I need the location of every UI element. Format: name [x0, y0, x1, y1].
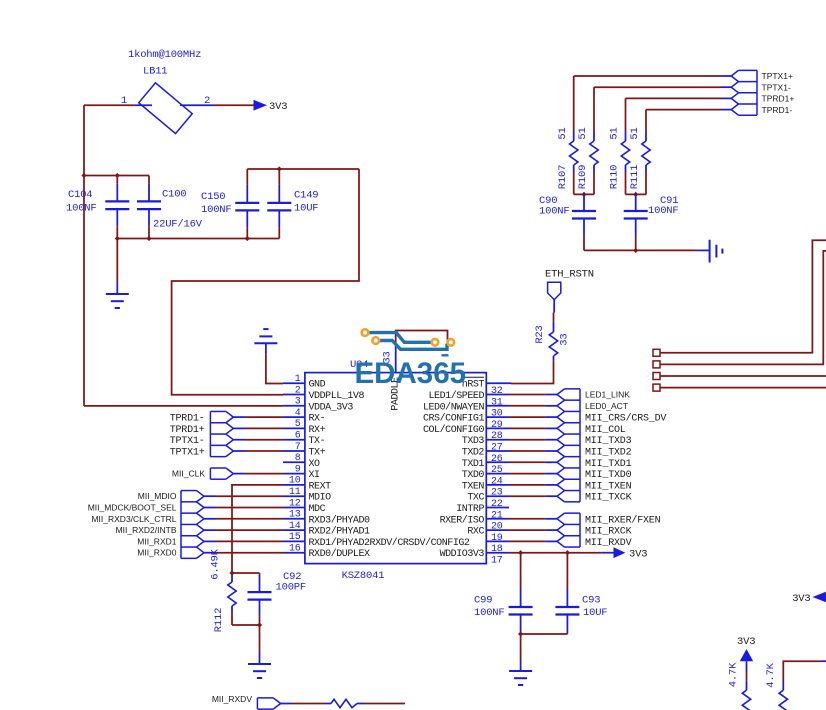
wire MII_MDIO to pin 11 — [204, 495, 283, 497]
pin name GND — [309, 380, 326, 391]
pin number 6 — [295, 431, 301, 442]
wire R107-R109 bottom bar — [574, 193, 594, 195]
logo via C — [432, 339, 439, 346]
label 4.7K (second) — [765, 662, 777, 687]
pin name XO — [309, 459, 321, 470]
pin 7 stub (left) — [283, 450, 305, 452]
label 51 of R109 — [577, 127, 589, 139]
junction C92 bottom — [257, 622, 262, 627]
pin name INTRP — [456, 504, 484, 515]
label R112 — [213, 608, 225, 632]
junction C150 bottom — [245, 236, 250, 241]
capacitor C149 — [267, 169, 291, 239]
svg-text:4.7K: 4.7K — [765, 662, 777, 687]
svg-text:TPRD1+: TPRD1+ — [762, 94, 795, 104]
wire pin row 11 to flag MII_TXCK — [509, 495, 557, 497]
svg-text:C100: C100 — [162, 189, 186, 201]
wire ETH_RSTN to R23 — [553, 313, 555, 320]
ground below C104 — [106, 283, 129, 308]
label C92 — [283, 571, 301, 583]
pin name TX+ — [309, 448, 326, 459]
wire right edge to second resistor — [783, 661, 826, 681]
wire VDDA_3V3 vertical from LB11 node — [83, 105, 85, 406]
wire 3V3 rail to LB11 pin1 — [84, 104, 134, 106]
connector pad square 3 — [653, 373, 660, 380]
label MII_CRS/CRS_DV — [585, 413, 666, 425]
svg-text:23: 23 — [491, 488, 503, 499]
pin name LED1/SPEED — [428, 390, 484, 402]
junction C149 top — [277, 166, 282, 171]
resistor 4.7K (first) — [742, 680, 750, 710]
svg-text:R110: R110 — [609, 165, 621, 189]
logo trace 2 — [380, 341, 448, 350]
wire termination ground rail — [584, 249, 710, 251]
pin stub right row 8 — [486, 461, 509, 463]
pin number 19 — [491, 533, 503, 544]
wire paddle net — [396, 331, 448, 345]
label 22UF/16V of C100 — [153, 219, 203, 231]
wire MII_CLK to pin 9 — [233, 473, 283, 475]
wire MII_RXDV to resistor — [281, 703, 326, 705]
label MII_TXD1 — [585, 459, 632, 470]
svg-text:18: 18 — [491, 544, 503, 555]
wire R112/C92 top bar — [232, 572, 260, 574]
svg-text:MII_RXD3/CLK_CTRL: MII_RXD3/CLK_CTRL — [91, 514, 176, 524]
pin number 1 — [295, 374, 301, 385]
wire pin row 7 to flag MII_TXD2 — [509, 450, 557, 452]
pin 16 stub (left) — [283, 552, 305, 554]
svg-text:LED1_LINK: LED1_LINK — [585, 390, 630, 400]
svg-text:MII_TXD3: MII_TXD3 — [585, 436, 632, 447]
svg-text:21: 21 — [491, 510, 503, 521]
pin number 1 of LB11 — [121, 95, 127, 107]
label R23 — [534, 325, 546, 343]
junction C90 top — [581, 192, 586, 197]
junction C104 top — [115, 173, 120, 178]
pin 4 stub (left) — [283, 416, 305, 418]
junction C104 bottom — [115, 236, 120, 241]
svg-text:51: 51 — [609, 127, 621, 139]
svg-text:R111: R111 — [629, 165, 641, 189]
svg-text:17: 17 — [491, 556, 503, 567]
junction C99 top — [518, 550, 523, 555]
pin 6 stub (left) — [283, 439, 305, 441]
IC U24 KSZ8041 body — [305, 373, 486, 564]
svg-text:19: 19 — [491, 533, 503, 544]
pin name TXD1 — [462, 459, 485, 470]
label 3V3 (right edge) — [792, 593, 810, 605]
wire pin row 15 to flag MII_RXDV — [509, 540, 557, 542]
svg-text:MII_RXER/FXEN: MII_RXER/FXEN — [585, 514, 661, 526]
svg-text:25: 25 — [491, 465, 503, 476]
label 10UF of C149 — [294, 203, 318, 215]
wire R110-R111 bottom bar — [626, 193, 647, 195]
label MII_RXD0 — [137, 548, 176, 558]
wire cap rail top left — [84, 175, 149, 177]
label TPTX1+ — [170, 448, 205, 459]
svg-text:2: 2 — [295, 385, 301, 396]
label MII_TXCK — [585, 493, 632, 504]
capacitor C104 — [105, 176, 129, 239]
wire TP net 4 to flag — [646, 109, 731, 111]
pin name RXD0/DUPLEX — [309, 548, 371, 560]
pin name TXC — [467, 493, 484, 504]
svg-text:RXER/ISO: RXER/ISO — [440, 514, 485, 526]
ferrite bead LB11 — [134, 83, 213, 134]
pin number 26 — [491, 454, 503, 465]
resistor (horizontal, bottom) — [326, 699, 365, 707]
label MII_RXER/FXEN — [585, 514, 661, 526]
pin stub right row 15 — [486, 540, 509, 542]
wire TPTX1+ to pin 7 — [233, 450, 283, 452]
svg-text:4: 4 — [295, 408, 301, 419]
svg-text:100NF: 100NF — [648, 205, 679, 217]
svg-text:MII_TXCK: MII_TXCK — [585, 493, 632, 504]
pin number 32 — [491, 386, 503, 397]
net flags MII_RXER/FXEN..MII_RXDV — [557, 513, 580, 547]
svg-text:100PF: 100PF — [276, 582, 307, 594]
label MII_MDIO — [138, 491, 177, 501]
svg-text:VDDA_3V3: VDDA_3V3 — [309, 402, 354, 413]
label 3V3 (top) — [269, 101, 287, 113]
svg-text:MII_RXDV: MII_RXDV — [212, 694, 252, 704]
pin number 10 — [289, 476, 301, 487]
svg-text:R107: R107 — [557, 165, 569, 189]
label U24 (behind logo) — [350, 359, 368, 371]
svg-text:51: 51 — [629, 127, 641, 139]
label 33 of R23 — [558, 333, 570, 345]
pin number 27 — [491, 443, 503, 454]
wire bottom resistor right — [364, 703, 405, 705]
pin stub right row 10 — [486, 484, 509, 486]
svg-text:GND: GND — [309, 380, 326, 391]
wire TP net 1 to flag — [574, 75, 732, 77]
pin number 2 — [295, 385, 301, 396]
wire LB11 pin2 to 3V3 arrow — [213, 104, 254, 106]
pin name LED0/NWAYEN — [423, 401, 485, 413]
pin number 16 — [289, 544, 301, 555]
pin name WDDIO3V3 — [440, 549, 485, 560]
pin stub right row 5 — [486, 427, 509, 429]
svg-text:R23: R23 — [534, 325, 546, 343]
svg-text:RXD0/DUPLEX: RXD0/DUPLEX — [309, 548, 371, 560]
svg-text:4.7K: 4.7K — [728, 662, 740, 687]
pin stub right row 7 — [486, 450, 509, 452]
logo text EDA365 — [355, 357, 467, 390]
pin number 13 — [289, 510, 301, 521]
svg-text:MDIO: MDIO — [309, 493, 332, 504]
wire cap rail top right — [247, 168, 359, 170]
pin stub right row 6 — [486, 439, 509, 441]
label ETH_RSTN — [545, 269, 594, 281]
svg-text:CRS/CONFIG1: CRS/CONFIG1 — [423, 413, 485, 425]
wire pin row 4 to flag MII_CRS/CRS_DV — [509, 416, 557, 418]
pin number 2 of LB11 — [204, 95, 210, 107]
wire pin row 8 to flag MII_TXD1 — [509, 461, 557, 463]
pin number 17 — [491, 556, 503, 567]
svg-text:100NF: 100NF — [201, 204, 232, 216]
svg-text:MII_RXD1: MII_RXD1 — [137, 536, 176, 546]
svg-text:7: 7 — [295, 442, 301, 453]
svg-text:1: 1 — [295, 374, 301, 385]
pin 12 stub (left) — [283, 507, 305, 509]
pin number 3 — [295, 397, 301, 408]
label R111 — [629, 165, 641, 189]
label TPRD1- — [170, 414, 205, 425]
label MII_MDCK/BOOT_SEL — [88, 503, 177, 513]
pin number 20 — [491, 522, 503, 533]
svg-text:C99: C99 — [474, 595, 492, 607]
label 1kohm@100MHz — [128, 49, 201, 61]
svg-text:C150: C150 — [201, 191, 225, 203]
svg-text:22UF/16V: 22UF/16V — [153, 219, 203, 231]
label 51 of R107 — [557, 127, 569, 139]
pin name VDDA_3V3 — [309, 402, 354, 413]
pin number 21 — [491, 510, 503, 521]
logo trace 1 — [369, 333, 432, 343]
wire pin row 3 to flag LED0_ACT — [509, 405, 557, 407]
svg-text:TPRD1-: TPRD1- — [762, 105, 793, 115]
pin stub right row 1 — [486, 382, 511, 384]
wire TPRD1- to pin 4 — [233, 416, 283, 418]
svg-text:MII_TXD0: MII_TXD0 — [585, 470, 632, 481]
svg-text:MII_TXD2: MII_TXD2 — [585, 448, 632, 459]
capacitor C150 — [235, 169, 259, 239]
svg-text:51: 51 — [577, 127, 589, 139]
wire R112 bottom to C92 — [232, 624, 260, 626]
label MII_TXD0 — [585, 470, 632, 481]
capacitor C92 — [248, 573, 272, 625]
pin number 4 — [295, 408, 301, 419]
pin number 12 — [289, 498, 301, 509]
pin 10 stub (left) — [283, 484, 305, 486]
wire MII_RXD0 to pin 16 — [204, 552, 283, 554]
pin number 31 — [491, 397, 503, 408]
resistor R107 — [570, 76, 578, 194]
pin number 15 — [289, 532, 301, 543]
pin 3 stub (left) — [283, 405, 305, 407]
svg-text:10: 10 — [289, 476, 301, 487]
svg-text:TXEN: TXEN — [462, 481, 485, 492]
svg-text:3V3: 3V3 — [737, 636, 755, 648]
wire pin row 10 to flag MII_TXEN — [509, 484, 557, 486]
label MII_COL — [585, 425, 626, 436]
pin stub right row 16 — [486, 552, 509, 554]
label TPTX1- — [170, 436, 205, 447]
label LED1_LINK — [585, 390, 630, 400]
pin name TXD3 — [462, 436, 485, 447]
svg-text:LED0_ACT: LED0_ACT — [585, 401, 628, 411]
wire 3V3 arrow to resistor — [746, 661, 748, 680]
logo via B — [372, 337, 379, 344]
svg-text:LED1/SPEED: LED1/SPEED — [428, 390, 484, 402]
wire pin row 13 to flag MII_RXER/FXEN — [509, 518, 557, 520]
power symbol 3V3 (left arrow) — [813, 592, 826, 602]
wire pad 2 to right edge — [660, 251, 826, 365]
net flags TPTX1+/TPTX1-/TPRD1+/TPRD1- — [731, 70, 757, 115]
svg-text:6: 6 — [295, 431, 301, 442]
resistor 4.7K (second) — [779, 681, 787, 710]
wire C99-C93 bottom rail — [521, 633, 568, 635]
svg-text:3: 3 — [295, 397, 301, 408]
pin number 11 — [289, 487, 301, 498]
svg-text:TXD2: TXD2 — [462, 448, 485, 459]
port ETH_RSTN — [548, 282, 561, 312]
pin 1 stub (left) — [283, 382, 305, 384]
resistor R112 — [228, 575, 236, 626]
resistor R110 — [621, 98, 629, 194]
net flags MII_MDIO..MII_RXD0 — [181, 491, 204, 559]
svg-text:VDDPLL_1V8: VDDPLL_1V8 — [309, 391, 365, 402]
svg-text:REXT: REXT — [309, 481, 332, 492]
svg-text:TXD0: TXD0 — [462, 470, 485, 481]
wire TPTX1- to pin 6 — [233, 439, 283, 441]
svg-text:TPTX1-: TPTX1- — [170, 436, 205, 447]
svg-text:TX+: TX+ — [309, 448, 326, 459]
label 3V3 (pullups) — [737, 636, 755, 648]
ground below C92 — [248, 653, 271, 678]
pin name VDDPLL_1V8 — [309, 391, 365, 402]
svg-text:8: 8 — [295, 453, 301, 464]
wire VDDA_3V3 to pin 3 — [84, 405, 283, 407]
wire REXT to R112/C92 — [232, 485, 283, 573]
wire pin row 9 to flag MII_TXD0 — [509, 473, 557, 475]
label TPTX1+ — [762, 71, 793, 81]
svg-text:WDDIO3V3: WDDIO3V3 — [440, 549, 485, 560]
capacitor C99 — [509, 553, 533, 634]
svg-text:XO: XO — [309, 459, 321, 470]
label 51 of R111 — [629, 127, 641, 139]
capacitor C90 — [572, 194, 596, 250]
label C100 — [162, 189, 186, 201]
pin 11 stub (left) — [283, 495, 305, 497]
label MII_RXD1 — [137, 536, 176, 546]
label R109 — [577, 165, 589, 189]
label MII_RXDV — [585, 538, 632, 549]
net flag MII_CLK — [210, 468, 233, 479]
label TPRD1+ — [762, 94, 795, 104]
junction C99 bottom — [518, 631, 523, 636]
svg-text:100NF: 100NF — [474, 607, 505, 619]
svg-text:9: 9 — [295, 464, 301, 475]
wire TPRD1+ to pin 5 — [233, 427, 283, 429]
wire C99 ground lead — [520, 634, 522, 660]
svg-text:12: 12 — [289, 498, 301, 509]
label 6.49K of R112 — [210, 548, 222, 579]
pin name TX- — [309, 436, 326, 447]
svg-text:EDA365: EDA365 — [355, 357, 467, 390]
pin name RXD2/PHYAD1 — [309, 526, 371, 538]
wire pad 3 to right edge — [660, 375, 826, 377]
svg-text:3V3: 3V3 — [269, 101, 287, 113]
pin number 33 (paddle) — [382, 351, 394, 363]
wire MII_RXD1 to pin 15 — [204, 540, 283, 542]
label TPRD1+ — [170, 425, 205, 436]
wire pin 18 WDDIO3V3 to 3V3 — [509, 552, 614, 554]
label C149 — [294, 190, 318, 202]
pin number 30 — [491, 409, 503, 420]
capacitor C100 — [137, 176, 161, 239]
wire R23 to nRST pin — [511, 361, 554, 384]
svg-text:100NF: 100NF — [539, 206, 570, 218]
pin stub right row 12 — [486, 507, 509, 509]
svg-text:10UF: 10UF — [583, 607, 607, 619]
label 100NF of C91 — [648, 205, 679, 217]
svg-text:LB11: LB11 — [143, 66, 167, 78]
resistor R109 — [590, 87, 598, 194]
svg-text:3V3: 3V3 — [629, 549, 647, 561]
label 4.7K (first) — [728, 662, 740, 687]
svg-text:ETH_RSTN: ETH_RSTN — [545, 269, 594, 281]
svg-text:10UF: 10UF — [294, 203, 318, 215]
svg-text:R109: R109 — [577, 165, 589, 189]
svg-text:TPRD1-: TPRD1- — [170, 414, 205, 425]
junction C91 bottom — [633, 248, 638, 253]
wire VDDPLL net right segment — [172, 169, 359, 395]
label 51 of R110 — [609, 127, 621, 139]
wire pad 4 to right edge — [660, 387, 826, 389]
pin number 8 — [295, 453, 301, 464]
pin stub right row 11 — [486, 495, 509, 497]
svg-text:MII_RXCK: MII_RXCK — [585, 527, 632, 538]
pin name RX+ — [309, 425, 326, 436]
pin stub right row 4 — [486, 416, 509, 418]
pin name MDC — [309, 504, 326, 515]
junction R112 top — [229, 570, 234, 575]
pin stub right row 2 — [486, 394, 509, 396]
wire MII_MDCK/BOOT_SEL to pin 12 — [204, 507, 283, 509]
power symbol 3V3 (right arrow) — [254, 100, 268, 111]
label MII_RXCK — [585, 527, 632, 538]
wire pad 1 to top right edge — [660, 240, 826, 352]
wire pin1 to ground — [266, 355, 283, 384]
pin name TXD2 — [462, 448, 485, 459]
pin stub right row 9 — [486, 473, 509, 475]
pin name MDIO — [309, 493, 332, 504]
svg-text:RX+: RX+ — [309, 425, 326, 436]
pin stub right row 14 — [486, 529, 509, 531]
pin name CRS/CONFIG1 — [423, 413, 485, 425]
svg-text:RXD1/PHYAD2RXDV/CRSDV/CONFIG2: RXD1/PHYAD2RXDV/CRSDV/CONFIG2 — [309, 537, 470, 549]
label TPTX1- — [762, 82, 791, 92]
wire C104 ground lead — [116, 239, 118, 284]
wire TP net 2 to flag — [594, 86, 731, 88]
pin number 22 — [491, 499, 503, 510]
svg-text:30: 30 — [491, 409, 503, 420]
wire pin row 6 to flag MII_TXD3 — [509, 439, 557, 441]
svg-text:MII_MDIO: MII_MDIO — [138, 491, 177, 501]
svg-text:LED0/NWAYEN: LED0/NWAYEN — [423, 401, 485, 413]
wire cap bottom rail — [117, 238, 279, 240]
label LB11 — [143, 66, 167, 78]
pin 14 stub (left) — [283, 529, 305, 531]
svg-text:COL/CONFIG0: COL/CONFIG0 — [423, 424, 485, 436]
svg-text:28: 28 — [491, 431, 503, 442]
wire C92 ground lead — [259, 625, 261, 653]
svg-text:14: 14 — [289, 521, 301, 532]
svg-text:5: 5 — [295, 419, 301, 430]
net flags LED1_LINK..MII_TXCK — [557, 389, 580, 502]
wire pin row 2 to flag LED1_LINK — [509, 394, 557, 396]
capacitor C91 — [624, 194, 648, 250]
pin number 7 — [295, 442, 301, 453]
svg-text:RXD2/PHYAD1: RXD2/PHYAD1 — [309, 526, 371, 538]
svg-text:TXD1: TXD1 — [462, 459, 485, 470]
svg-text:16: 16 — [289, 544, 301, 555]
svg-text:15: 15 — [289, 532, 301, 543]
svg-text:TPTX1-: TPTX1- — [762, 82, 791, 92]
svg-text:MII_RXDV: MII_RXDV — [585, 538, 632, 549]
